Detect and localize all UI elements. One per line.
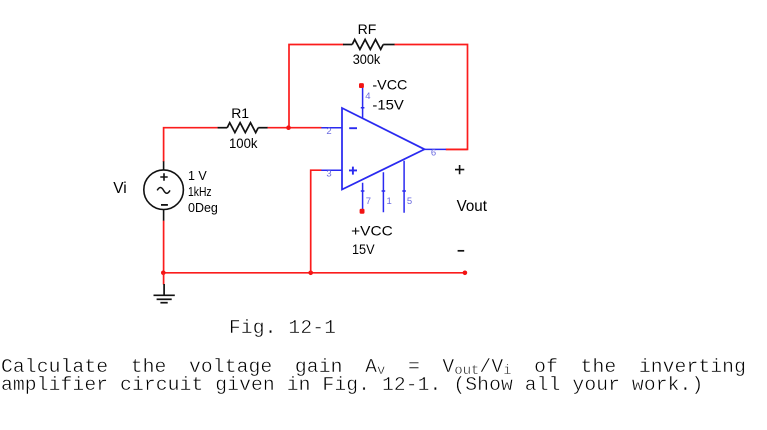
- wire: RF to output node (top-right horizontal + right vertical): [395, 45, 468, 150]
- svg-text:-VCC: -VCC: [372, 77, 407, 93]
- svg-text:15V: 15V: [352, 241, 375, 257]
- node dot: +VCC terminal: [360, 209, 365, 214]
- op-amp pin 7 lead: [361, 183, 365, 210]
- wire: ground stub: [163, 273, 165, 285]
- svg-text:1: 1: [387, 196, 392, 207]
- op-amp pin 5 lead: [402, 161, 406, 213]
- problem statement paragraph line 1: [1, 359, 746, 378]
- resistor RF: [343, 40, 395, 50]
- svg-text:6: 6: [431, 147, 436, 158]
- svg-text:+VCC: +VCC: [351, 223, 393, 239]
- resistor R1: [218, 123, 268, 133]
- svg-text:1kHz: 1kHz: [188, 185, 212, 199]
- junction dot: ground node: [161, 271, 166, 276]
- caption Fig. 12-1: [229, 318, 336, 338]
- wire: Vi top to R1: [164, 128, 218, 162]
- op-amp pin 4 lead: [361, 88, 365, 118]
- ground: [154, 284, 175, 303]
- wire: bottom rail: [163, 272, 465, 274]
- wire: Vi bottom to ground rail: [163, 221, 165, 273]
- svg-text:1 V: 1 V: [188, 169, 207, 183]
- svg-text:4: 4: [365, 91, 370, 102]
- op-amp pin 3 lead: [321, 169, 342, 171]
- svg-text:100k: 100k: [229, 135, 258, 151]
- node dot: -VCC terminal: [359, 83, 364, 88]
- junction dot: feedback tap: [286, 125, 291, 130]
- svg-text:R1: R1: [231, 105, 249, 121]
- op-amp U1 triangle: [342, 108, 425, 190]
- wire: R1 to op-amp pin 2: [268, 127, 322, 129]
- svg-text:Vout: Vout: [457, 198, 488, 215]
- junction dot: pin3 leg on rail: [308, 271, 313, 276]
- svg-text:7: 7: [366, 196, 371, 207]
- svg-text:2: 2: [326, 126, 331, 137]
- svg-text:-15V: -15V: [372, 97, 404, 113]
- wire: pin 3 to bottom rail: [311, 170, 322, 273]
- problem statement paragraph line 2: [1, 377, 703, 394]
- source Vi: [144, 161, 184, 221]
- svg-text:Vi: Vi: [113, 180, 127, 197]
- op-amp pin 6 lead: [425, 148, 447, 150]
- op-amp pin 2 lead: [321, 127, 342, 129]
- svg-text:RF: RF: [358, 21, 377, 37]
- svg-text:0Deg: 0Deg: [188, 201, 218, 215]
- svg-text:300k: 300k: [353, 51, 382, 67]
- label output plus: [455, 165, 464, 174]
- junction dot: rail right end: [463, 271, 468, 276]
- label output minus: [458, 250, 465, 252]
- svg-text:3: 3: [326, 168, 331, 179]
- wire: feedback left vertical + top-left horizontal: [289, 45, 344, 129]
- op-amp pin 1 lead: [382, 172, 386, 212]
- svg-text:5: 5: [407, 196, 412, 207]
- wire: pin 6 output: [446, 148, 468, 150]
